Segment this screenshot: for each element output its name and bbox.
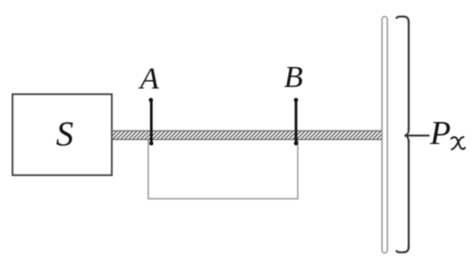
reflector plate [382, 17, 387, 254]
svg-text:A: A [138, 61, 160, 96]
brace bracket [396, 17, 408, 253]
tick mark B [294, 98, 298, 145]
svg-text:S: S [56, 115, 74, 154]
measurement rectangle below bar [148, 140, 297, 199]
svg-text:P: P [429, 115, 451, 152]
svg-text:B: B [284, 59, 303, 94]
pointer dash to label [405, 135, 430, 137]
tick mark A [149, 98, 154, 145]
source box S [13, 94, 112, 175]
hatched rod/bar [112, 131, 383, 140]
